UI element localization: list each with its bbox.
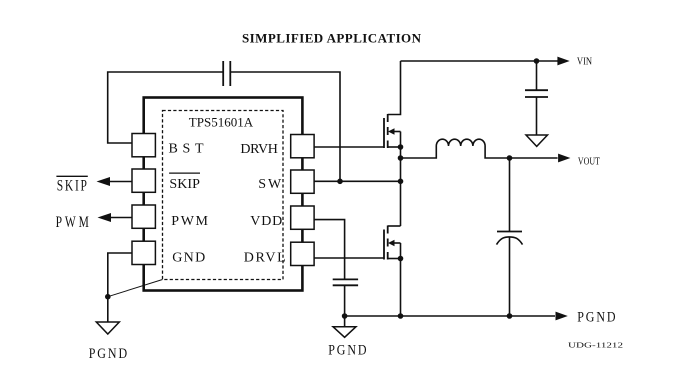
svg-text:DRVH: DRVH xyxy=(240,142,278,157)
svg-text:UDG-11212: UDG-11212 xyxy=(568,342,624,350)
svg-text:SKIP: SKIP xyxy=(57,178,89,195)
svg-text:SW: SW xyxy=(258,177,282,192)
svg-text:TPS51601A: TPS51601A xyxy=(189,115,254,130)
svg-text:VOUT: VOUT xyxy=(578,156,600,167)
svg-text:GND: GND xyxy=(172,250,205,265)
svg-text:PGND: PGND xyxy=(577,308,617,325)
svg-text:PGND: PGND xyxy=(328,341,368,358)
svg-text:SKIP: SKIP xyxy=(169,177,200,192)
svg-text:DRVL: DRVL xyxy=(244,250,286,265)
svg-text:VDD: VDD xyxy=(250,214,282,229)
svg-text:SIMPLIFIED APPLICATION: SIMPLIFIED APPLICATION xyxy=(242,31,422,46)
svg-text:PGND: PGND xyxy=(89,345,129,362)
svg-text:VIN: VIN xyxy=(577,57,592,68)
svg-text:PWM: PWM xyxy=(171,214,208,229)
svg-text:BST: BST xyxy=(169,141,204,156)
svg-text:PWM: PWM xyxy=(56,214,92,231)
